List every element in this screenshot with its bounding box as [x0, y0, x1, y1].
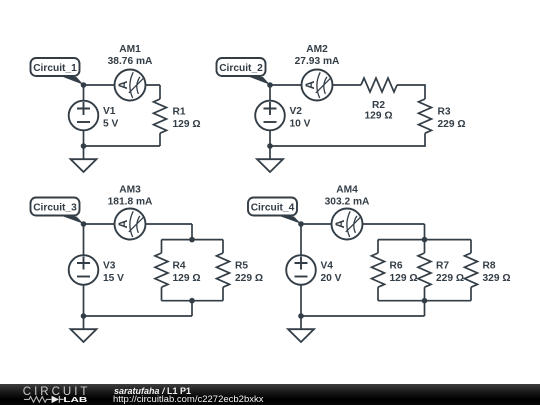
svg-text:27.93 mA: 27.93 mA	[295, 56, 340, 67]
node bus top junction 3	[189, 237, 195, 243]
svg-text:AM4: AM4	[336, 185, 358, 196]
resistor R6	[372, 253, 385, 287]
node ground junction 4	[298, 313, 304, 319]
voltage source V2	[255, 101, 285, 131]
svg-text:R8: R8	[483, 261, 496, 272]
svg-text:303.2 mA: 303.2 mA	[325, 197, 370, 208]
svg-text:229 Ω: 229 Ω	[436, 273, 464, 284]
svg-text:LAB: LAB	[63, 395, 87, 404]
svg-text:A: A	[116, 219, 130, 228]
wire	[191, 301, 193, 316]
voltage source V1	[69, 101, 99, 131]
wire	[162, 239, 224, 241]
svg-text:R1: R1	[173, 107, 186, 118]
wire	[424, 301, 426, 316]
wire	[424, 224, 426, 240]
node bus bottom junction 4	[422, 298, 428, 304]
wire	[191, 224, 193, 240]
ammeter AM1	[115, 70, 146, 101]
svg-text:V3: V3	[103, 261, 116, 272]
node Circuit_1 net	[81, 82, 87, 88]
node label Circuit_1	[31, 58, 84, 85]
ammeter AM3	[115, 209, 146, 240]
svg-text:http://circuitlab.com/c2272ecb: http://circuitlab.com/c2272ecb2bxkx	[113, 394, 264, 405]
svg-text:Circuit_3: Circuit_3	[33, 203, 77, 214]
svg-text:329 Ω: 329 Ω	[483, 273, 511, 284]
svg-text:15 V: 15 V	[103, 273, 124, 284]
node Circuit_3 net	[81, 221, 87, 227]
node ground junction 1	[81, 143, 87, 149]
ground	[288, 316, 314, 342]
resistor R1	[154, 99, 167, 133]
svg-text:V1: V1	[103, 106, 116, 117]
node ground junction 2	[267, 143, 273, 149]
svg-text:R2: R2	[372, 100, 385, 111]
svg-text:129 Ω: 129 Ω	[173, 119, 201, 130]
svg-text:R5: R5	[235, 261, 248, 272]
svg-text:AM1: AM1	[119, 44, 141, 55]
resistor R8	[465, 253, 478, 287]
wire	[84, 223, 193, 225]
resistor R7	[418, 253, 431, 287]
svg-text:38.76 mA: 38.76 mA	[108, 56, 153, 67]
voltage source V4	[286, 255, 316, 285]
node label Circuit_2	[217, 58, 271, 85]
CircuitLab logo	[23, 386, 91, 404]
wire	[301, 223, 425, 225]
node bus top junction 4	[422, 237, 428, 243]
svg-text:A: A	[333, 219, 347, 228]
node Circuit_2 net	[267, 82, 273, 88]
wire	[222, 287, 224, 301]
node label Circuit_3	[31, 198, 84, 224]
svg-text:Circuit_2: Circuit_2	[219, 63, 263, 74]
wire	[301, 315, 425, 317]
wire	[424, 240, 426, 253]
wire	[162, 300, 224, 302]
svg-text:R7: R7	[436, 261, 449, 272]
node Circuit_4 net	[298, 221, 304, 227]
wire	[161, 240, 163, 253]
svg-text:20 V: 20 V	[321, 273, 342, 284]
wire	[84, 84, 161, 86]
wire	[83, 224, 85, 316]
wire	[84, 145, 161, 147]
wire	[161, 287, 163, 301]
wire	[269, 85, 271, 146]
svg-text:129 Ω: 129 Ω	[390, 273, 418, 284]
ammeter AM4	[332, 209, 363, 240]
wire	[470, 287, 472, 301]
resistor R4	[155, 253, 168, 287]
wire	[83, 85, 85, 146]
svg-text:AM3: AM3	[119, 185, 141, 196]
svg-text:R3: R3	[438, 107, 451, 118]
wire	[270, 84, 361, 86]
svg-text:Circuit_4: Circuit_4	[251, 203, 295, 214]
wire	[377, 287, 379, 301]
wire	[397, 85, 425, 99]
svg-text:229 Ω: 229 Ω	[235, 273, 263, 284]
ground	[71, 146, 97, 172]
svg-text:V4: V4	[321, 261, 334, 272]
resistor R5	[217, 253, 230, 287]
node bus bottom junction 3	[189, 298, 195, 304]
wire	[84, 315, 193, 317]
svg-text:229 Ω: 229 Ω	[438, 119, 466, 130]
svg-text:A: A	[116, 80, 130, 89]
svg-text:10 V: 10 V	[290, 118, 311, 129]
svg-text:R6: R6	[390, 261, 403, 272]
svg-text:A: A	[303, 80, 317, 89]
wire	[470, 240, 472, 253]
svg-text:5 V: 5 V	[103, 118, 118, 129]
svg-text:Circuit_1: Circuit_1	[33, 63, 77, 74]
svg-text:129 Ω: 129 Ω	[173, 273, 201, 284]
svg-text:129 Ω: 129 Ω	[365, 111, 393, 122]
node ground junction 3	[81, 313, 87, 319]
wire	[300, 224, 302, 316]
wire	[424, 287, 426, 301]
voltage source V3	[69, 255, 99, 285]
svg-text:181.8 mA: 181.8 mA	[108, 197, 153, 208]
ammeter AM2	[302, 70, 333, 101]
wire	[159, 85, 161, 99]
wire	[159, 133, 161, 146]
wire	[378, 239, 471, 241]
resistor R3	[419, 99, 432, 133]
wire	[378, 300, 471, 302]
ground	[257, 146, 283, 172]
wire	[377, 240, 379, 253]
node label Circuit_4	[248, 198, 301, 224]
ground	[71, 316, 97, 342]
svg-text:V2: V2	[290, 106, 303, 117]
wire	[222, 240, 224, 253]
resistor R2	[361, 78, 397, 92]
svg-text:R4: R4	[173, 261, 186, 272]
wire	[270, 133, 425, 146]
svg-text:AM2: AM2	[306, 44, 328, 55]
